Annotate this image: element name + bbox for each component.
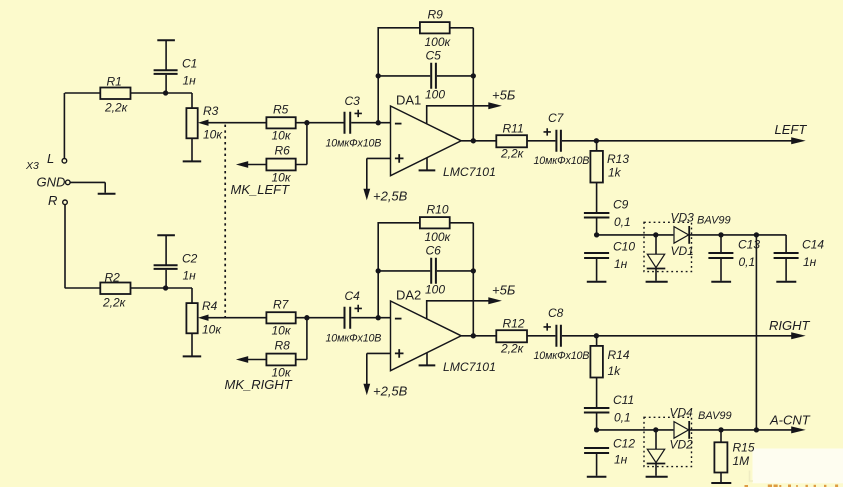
svg-text:C14: C14 — [802, 238, 824, 252]
svg-text:C11: C11 — [613, 393, 634, 407]
svg-text:C1: C1 — [182, 57, 197, 71]
svg-text:GND: GND — [37, 175, 66, 190]
svg-text:R5: R5 — [273, 103, 289, 117]
svg-text:100: 100 — [425, 283, 445, 297]
svg-text:VD4: VD4 — [670, 406, 694, 420]
svg-text:+5Б: +5Б — [492, 283, 516, 298]
svg-text:VD1: VD1 — [671, 244, 694, 258]
svg-text:10мкФх10В: 10мкФх10В — [534, 155, 590, 167]
svg-text:R2: R2 — [105, 271, 121, 285]
svg-text:DA1: DA1 — [396, 93, 421, 108]
svg-text:LMC7101: LMC7101 — [443, 360, 496, 374]
svg-text:C7: C7 — [548, 111, 565, 125]
svg-text:0,1: 0,1 — [739, 255, 756, 269]
svg-text:R15: R15 — [733, 441, 755, 455]
svg-text:C13: C13 — [738, 238, 760, 252]
svg-text:1н: 1н — [183, 269, 197, 283]
svg-text:R4: R4 — [202, 299, 218, 313]
svg-text:2,2к: 2,2к — [500, 147, 525, 161]
svg-text:C4: C4 — [345, 289, 361, 303]
svg-text:10мкФх10В: 10мкФх10В — [326, 333, 382, 345]
svg-text:RIGHT: RIGHT — [769, 318, 811, 333]
svg-text:100: 100 — [425, 88, 445, 102]
svg-text:R: R — [48, 193, 57, 208]
svg-text:BAV99: BAV99 — [697, 215, 731, 227]
svg-text:1k: 1k — [608, 166, 622, 180]
svg-text:100к: 100к — [425, 35, 452, 49]
svg-text:BAV99: BAV99 — [698, 410, 732, 422]
svg-text:LEFT: LEFT — [775, 122, 808, 137]
svg-text:C9: C9 — [613, 198, 629, 212]
svg-text:VD2: VD2 — [670, 438, 694, 452]
svg-text:10к: 10к — [272, 129, 292, 143]
svg-text:2,2к: 2,2к — [104, 101, 129, 115]
svg-text:C8: C8 — [548, 306, 564, 320]
svg-text:R10: R10 — [427, 203, 449, 217]
svg-text:1н: 1н — [614, 257, 628, 271]
svg-text:R13: R13 — [607, 152, 629, 166]
svg-text:C5: C5 — [426, 49, 442, 63]
svg-text:10к: 10к — [203, 128, 223, 142]
svg-text:C10: C10 — [613, 240, 635, 254]
svg-text:R3: R3 — [203, 104, 219, 118]
svg-text:R11: R11 — [503, 122, 524, 136]
svg-text:L: L — [47, 151, 54, 166]
svg-text:0,1: 0,1 — [614, 411, 631, 425]
svg-text:R9: R9 — [428, 8, 444, 22]
svg-text:R7: R7 — [273, 298, 290, 312]
svg-text:MK_LEFT: MK_LEFT — [231, 182, 291, 197]
svg-text:2,2к: 2,2к — [500, 342, 525, 356]
svg-text:+5Б: +5Б — [492, 88, 516, 103]
svg-text:1M: 1M — [733, 454, 750, 468]
svg-text:C2: C2 — [182, 252, 198, 266]
svg-text:A-CNT: A-CNT — [769, 413, 811, 428]
svg-text:2,2к: 2,2к — [102, 296, 127, 310]
svg-text:100к: 100к — [425, 230, 452, 244]
svg-text:10к: 10к — [202, 323, 222, 337]
svg-text:1k: 1k — [608, 364, 622, 378]
svg-text:C12: C12 — [613, 437, 635, 451]
svg-text:MK_RIGHT: MK_RIGHT — [225, 377, 293, 392]
svg-text:1н: 1н — [183, 74, 197, 88]
svg-text:LMC7101: LMC7101 — [443, 165, 496, 179]
svg-text:R6: R6 — [275, 144, 291, 158]
svg-text:C3: C3 — [345, 94, 361, 108]
svg-text:+2,5В: +2,5В — [373, 384, 408, 399]
svg-text:0,1: 0,1 — [614, 215, 631, 229]
svg-text:+2,5В: +2,5В — [373, 189, 408, 204]
svg-text:X3: X3 — [25, 160, 39, 172]
svg-text:1н: 1н — [803, 255, 817, 269]
svg-text:DA2: DA2 — [396, 288, 421, 303]
svg-text:R12: R12 — [503, 317, 525, 331]
svg-text:VD3: VD3 — [671, 211, 695, 225]
svg-text:R1: R1 — [107, 75, 122, 89]
svg-text:R8: R8 — [275, 339, 291, 353]
svg-text:R14: R14 — [608, 348, 630, 362]
svg-text:10мкФх10В: 10мкФх10В — [326, 138, 382, 150]
svg-text:1н: 1н — [614, 453, 628, 467]
svg-text:10к: 10к — [272, 324, 292, 338]
svg-text:C6: C6 — [426, 244, 442, 258]
svg-text:10мкФх10В: 10мкФх10В — [534, 350, 590, 362]
